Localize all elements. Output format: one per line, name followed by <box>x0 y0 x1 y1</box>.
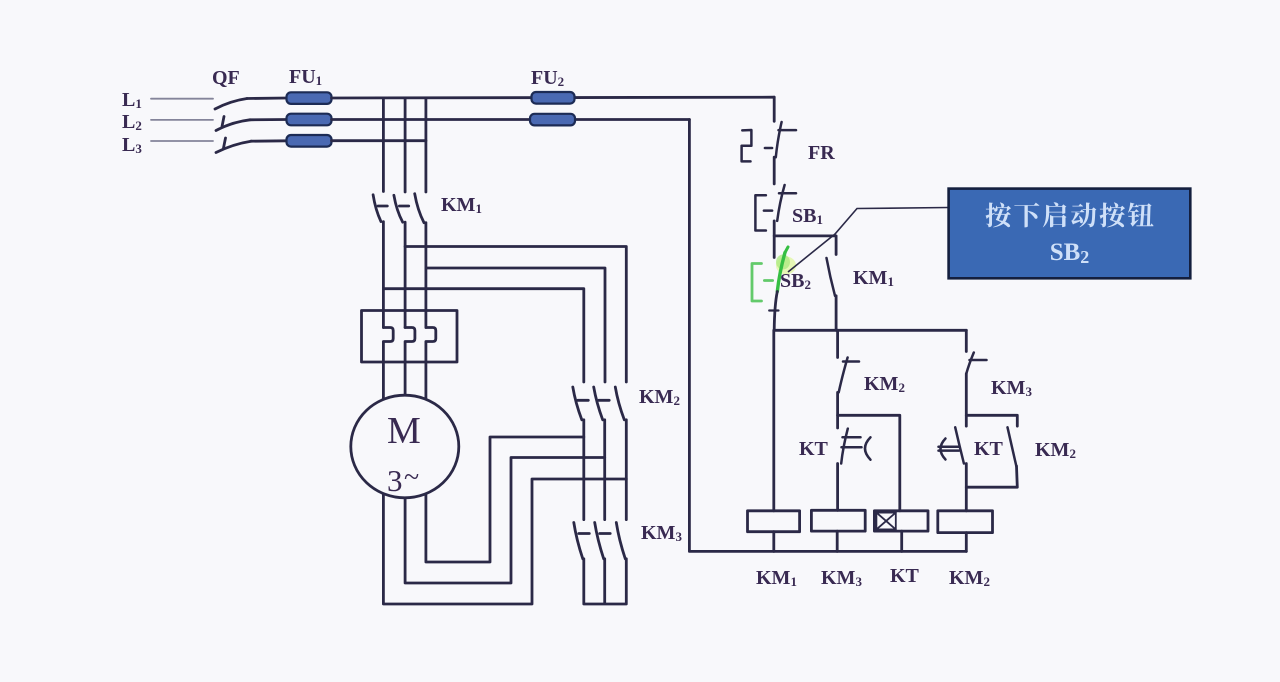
contact KM1 aux (NO) <box>827 258 836 296</box>
wire bus to KM1 coil <box>772 330 775 511</box>
breaker QF <box>215 99 251 153</box>
button SB2 (NO start, green highlight) <box>752 247 796 311</box>
wire motor bottom A <box>383 479 626 604</box>
wire junction to KM1 aux <box>774 236 836 255</box>
wire bus to KM3 NC <box>965 330 968 351</box>
wire phase A vertical mid <box>382 222 385 328</box>
wire L1 lead <box>151 98 213 100</box>
svg-text:KT: KT <box>890 565 920 587</box>
contact KT timed (NC) <box>841 429 870 464</box>
relay contact FR (NC) <box>742 122 796 161</box>
wire KM3 coil to bus <box>836 531 839 551</box>
wire KM1 aux to bus <box>835 296 838 331</box>
wire KM2 NC to KT branch <box>836 392 839 428</box>
wire phase C vertical mid <box>424 223 427 328</box>
node L3 <box>122 134 142 156</box>
coil KT (timer) <box>874 511 928 531</box>
svg-text:M: M <box>387 410 421 452</box>
wire phase B vertical upper <box>404 98 407 192</box>
wire KT to KM3 coil <box>836 464 839 511</box>
wire L2 lead <box>151 119 213 121</box>
button SB1 (NC stop) <box>755 185 796 231</box>
node L2 <box>122 111 142 133</box>
wire SB2 to bus <box>774 292 777 331</box>
wire motor bottom B <box>405 458 605 584</box>
wire KM2 mid lower <box>603 420 606 520</box>
wire KM1 coil to bus <box>772 532 775 552</box>
callout box: press start button SB2 <box>949 189 1191 279</box>
contactor KM3 main contacts <box>574 523 626 559</box>
wire motor bottom C <box>426 437 584 562</box>
wire row2 FU1 to corner <box>332 118 690 121</box>
wire KT coil to bus <box>900 531 903 551</box>
thermal relay FR heaters box <box>362 311 458 363</box>
wire phase B vertical mid <box>404 222 407 327</box>
wire KM2 right lower <box>625 420 628 520</box>
wire row3 <box>332 139 426 142</box>
fuse FU1 <box>287 66 332 147</box>
wire control bus <box>774 329 966 332</box>
wire QF to FU1 <box>247 98 287 141</box>
wire phases into motor <box>383 362 426 412</box>
svg-text:~: ~ <box>404 462 419 493</box>
wire tap C to KM2 mid <box>426 268 605 382</box>
wire KM2 left lower <box>582 420 585 520</box>
wire KM2 coil to bus <box>965 533 968 552</box>
wire control return <box>689 120 966 552</box>
svg-text:3: 3 <box>387 463 403 498</box>
contactor KM2 main contacts <box>573 387 625 420</box>
motor M <box>351 395 459 498</box>
contact KM3 interlock (NC) <box>966 353 986 374</box>
svg-text:KT: KT <box>799 438 829 460</box>
wire phase C vertical upper <box>424 98 427 192</box>
wire SB1 to junction <box>773 221 776 258</box>
coil KM1 <box>748 511 800 532</box>
node L1 <box>122 89 142 111</box>
wire bus to KM2 NC <box>836 330 839 357</box>
contact KM2 aux (NO) <box>1008 427 1017 466</box>
contactor KM1 main contacts <box>373 194 424 223</box>
contact KT timed (NO, delayed close) <box>939 427 964 463</box>
wire KT timed to KM2 coil <box>965 464 968 511</box>
wire tap A to KM2 left <box>383 289 583 382</box>
svg-text:QF: QF <box>212 67 240 89</box>
svg-text:FR: FR <box>808 142 835 164</box>
coil KM2 <box>938 511 993 533</box>
callout pointer line <box>788 208 949 273</box>
wire KM3 star point <box>584 559 627 604</box>
wire tap B to KM2 right <box>405 247 626 383</box>
wire L3 lead <box>151 140 213 142</box>
fuse FU2 <box>530 67 575 125</box>
wire KM2 aux bypass loop <box>966 415 1017 426</box>
wire FR to SB1 <box>773 157 776 184</box>
wire KM3 NC to KT timed <box>965 374 968 426</box>
wire KM2 aux to loop bottom <box>966 466 1017 487</box>
svg-text:KT: KT <box>974 438 1004 460</box>
wire row1 FU1 to corner <box>332 96 775 100</box>
wire control feed right <box>773 97 776 121</box>
wire phase A vertical upper <box>382 98 385 192</box>
wire branch to KT coil <box>838 415 900 511</box>
contact KM2 interlock (NC) <box>839 358 859 393</box>
coil KM3 <box>811 510 865 531</box>
